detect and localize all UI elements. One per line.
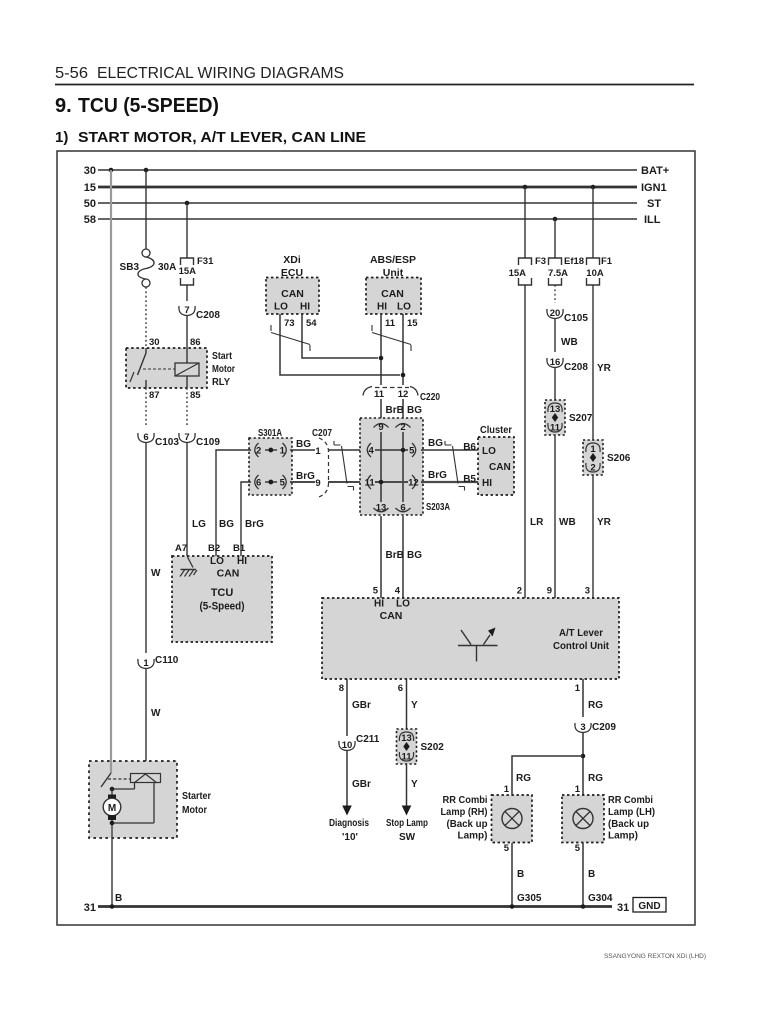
svg-text:15: 15 [84,182,96,194]
svg-text:SB3: SB3 [120,262,140,273]
svg-text:11: 11 [374,389,385,400]
svg-text:87: 87 [149,390,160,401]
svg-text:12: 12 [408,478,419,489]
svg-text:RG: RG [516,773,531,784]
wire starter to ground bus (B) [111,838,113,907]
svg-text:WB: WB [561,337,578,348]
junction starter ground [110,904,115,909]
svg-text:C211: C211 [356,734,380,745]
svg-text:F3: F3 [535,256,546,267]
wire C208 to S207 [554,368,556,400]
svg-text:LO: LO [482,446,496,457]
wire ILL to Ef18 [554,219,556,258]
wire S203A pin13 to A/T pin5 (BrB) [380,516,382,598]
svg-text:Control Unit: Control Unit [553,640,609,652]
svg-text:4: 4 [369,446,375,457]
connector C208 pin7 [179,306,195,316]
svg-text:Cluster: Cluster [480,424,512,436]
twisted-pair mark before S203A [334,441,354,491]
svg-text:58: 58 [84,214,96,226]
svg-text:CAN: CAN [281,288,304,300]
svg-text:BG: BG [428,438,443,449]
starter mechanical link (dashed) [108,778,130,780]
connector C110 pin1 [138,659,154,669]
wire C209 to lamp junction [582,733,584,795]
svg-text:HI: HI [300,302,310,313]
wire F3 to A/T pin2 (LR) [524,285,526,598]
svg-text:10A: 10A [586,268,604,279]
connector C103 pin6 [138,433,154,443]
wire bus 58 / ILL [98,218,637,220]
wire S203A pin12 to Cluster B5 (BrG) [421,481,478,483]
wire S206 to A/T pin3 (YR) [592,475,594,598]
splice S206 [583,440,603,475]
wire XDi pin73 (CAN LO) [280,314,400,375]
svg-text:SSANGYONG REXTON XDi (LHD): SSANGYONG REXTON XDi (LHD) [604,953,706,960]
wire relay87 to C103 (dotted) [145,388,147,427]
svg-text:LO: LO [210,556,224,567]
svg-text:1): 1) [55,129,68,146]
svg-text:Y: Y [411,700,418,711]
junction starter solenoid to motor [110,787,115,792]
svg-text:C220: C220 [420,392,440,403]
circuit breaker SB3 30A [142,249,150,257]
fuse F3 15A [519,258,532,285]
svg-text:LO: LO [397,302,411,313]
svg-text:6: 6 [400,503,405,514]
wire C109 to TCU A7 (LG) [186,443,188,556]
wire ground bus 31 [98,905,612,908]
svg-text:BG: BG [296,439,311,450]
svg-text:11: 11 [365,478,376,489]
svg-text:9.: 9. [55,95,72,117]
starter switch blade [110,761,112,773]
svg-text:1: 1 [280,446,286,457]
svg-text:TCU: TCU [211,587,234,599]
junction motor return [110,821,115,826]
svg-text:7: 7 [184,305,189,316]
twisted-pair mark XDi [271,325,310,351]
svg-text:Diagnosis: Diagnosis [329,818,369,829]
svg-text:6: 6 [398,683,403,694]
svg-text:C103: C103 [155,437,179,448]
wire C220-12 to S203A pin2 (BG) [402,399,404,418]
svg-text:B1: B1 [233,543,246,554]
wire F31 to C208 [186,285,188,301]
svg-text:RG: RG [588,700,603,711]
junction IGN1 F3 [523,185,528,190]
wire C220-11 to S203A pin9 (BrB) [380,399,382,418]
svg-text:ILL: ILL [644,214,661,226]
svg-text:A/T Lever: A/T Lever [559,627,603,639]
svg-text:RLY: RLY [212,376,230,388]
ground G304 [581,904,586,909]
connector C208 pin16 [547,358,563,368]
wire RG branch to RH lamp [512,756,583,795]
wire S203A pin5 to Cluster B6 (BG) [421,449,478,451]
svg-text:30: 30 [149,337,160,348]
svg-text:Motor: Motor [182,804,207,816]
svg-text:2: 2 [590,463,595,474]
svg-text:12: 12 [398,389,409,400]
svg-text:Start: Start [212,350,232,362]
svg-text:1: 1 [590,444,596,455]
wire bus50 to F31 [186,203,188,258]
ground G305 [510,904,515,909]
svg-text:B: B [517,869,524,880]
svg-text:9: 9 [315,478,320,489]
svg-text:B5: B5 [463,474,476,485]
arrow to Stop Lamp SW [402,806,412,816]
svg-text:Y: Y [411,779,418,790]
svg-text:4: 4 [395,586,401,597]
starter solenoid [131,774,161,783]
svg-text:Lamp): Lamp) [608,830,638,842]
svg-text:Starter: Starter [182,790,211,802]
svg-text:5: 5 [373,586,379,597]
svg-text:GBr: GBr [352,700,371,711]
svg-text:TCU (5-SPEED): TCU (5-SPEED) [78,95,219,117]
wire bus 50 / ST [98,202,637,204]
svg-text:C209: C209 [592,722,616,733]
svg-text:1: 1 [143,658,149,669]
svg-text:2: 2 [256,446,261,457]
ground GND box [633,898,666,913]
svg-text:XDi: XDi [283,254,301,266]
connector C109 pin7 [179,433,195,443]
svg-text:Motor: Motor [212,363,235,375]
svg-text:5: 5 [575,843,581,854]
wire C105 to C208 (WB) [554,319,556,352]
svg-text:6: 6 [143,432,148,443]
ground symbol TCU A7 [188,557,194,568]
svg-text:S202: S202 [421,742,445,753]
wire SB3 to relay pin30 (dotted) [145,287,147,348]
junction IGN1 F1 [591,185,596,190]
svg-text:HI: HI [374,599,384,610]
svg-text:CAN: CAN [489,462,511,473]
svg-text:W: W [151,708,161,719]
svg-text:CAN: CAN [381,288,404,300]
svg-text:CAN: CAN [380,610,403,622]
svg-text:RR Combi: RR Combi [443,794,488,806]
svg-text:7: 7 [184,432,189,443]
svg-text:B: B [115,893,122,904]
twisted-pair mark before Cluster [445,441,465,491]
splice S202 [397,729,417,764]
wire battery cable to starter switch [110,170,112,773]
svg-text:F1: F1 [601,256,613,267]
wire ABS pin15 down (BG/LO) [402,314,404,385]
connector C220 pins 11/12 [363,387,372,396]
wire C103 to C110 (W) [145,443,147,653]
svg-text:Lamp (RH): Lamp (RH) [441,806,488,818]
joint connector S301A [249,438,292,495]
A/T lever selector symbol [458,630,498,662]
svg-text:LO: LO [396,599,410,610]
wire S301A pin6 to TCU B1 (BrG) [241,482,251,556]
svg-text:1: 1 [504,784,510,795]
junction bus30 starter cable [109,168,114,173]
wire XDi pin54 (CAN HI) [302,314,378,358]
svg-text:5: 5 [409,446,415,457]
svg-text:LO: LO [274,302,288,313]
wire C207-1 to S203A pin4 (BG) [328,449,362,451]
wire S301A pin5 to C207 (BrG) [290,481,315,483]
svg-text:5: 5 [280,478,286,489]
svg-text:86: 86 [190,337,201,348]
svg-text:HI: HI [377,302,387,313]
svg-text:2: 2 [400,422,405,433]
svg-text:8: 8 [339,683,344,694]
svg-text:Lamp): Lamp) [458,830,488,842]
svg-text:10: 10 [342,740,353,751]
svg-text:W: W [151,568,161,579]
svg-text:1: 1 [315,446,321,457]
svg-text:1: 1 [575,784,581,795]
wire relay85 to C109 (dotted) [186,388,188,427]
svg-text:9: 9 [547,586,552,597]
svg-text:11: 11 [401,752,412,763]
svg-text:2: 2 [517,586,522,597]
svg-text:15A: 15A [509,268,527,279]
svg-text:YR: YR [597,517,612,528]
connector C209 pin3 [575,723,591,733]
svg-text:BAT+: BAT+ [641,165,669,177]
svg-text:3: 3 [585,586,590,597]
junction RG split [581,754,586,759]
junction bus50 F31 [185,201,190,206]
wire bus 15 / IGN1 [98,186,637,189]
svg-text:3: 3 [580,722,585,733]
fuse F31 15A [181,258,194,285]
wire S207 to A/T pin9 (WB) [554,435,556,598]
fuse Ef18 7.5A [549,258,562,285]
svg-text:1: 1 [575,683,581,694]
svg-text:SW: SW [399,832,416,843]
junction ILL Ef18 [553,217,558,222]
svg-text:31: 31 [617,902,629,914]
svg-text:B: B [588,869,595,880]
svg-text:30: 30 [84,165,96,177]
svg-text:RG: RG [588,773,603,784]
splice S207 [545,400,565,435]
wire A/T pin1 down (RG) [582,679,584,717]
svg-text:BrG: BrG [296,471,315,482]
svg-text:BrB: BrB [386,550,404,561]
svg-text:(Back up: (Back up [447,818,488,830]
svg-text:Ef18: Ef18 [564,256,584,267]
svg-text:CAN: CAN [217,568,240,580]
svg-text:ELECTRICAL WIRING DIAGRAMS: ELECTRICAL WIRING DIAGRAMS [97,65,344,82]
wire C208 to relay pin86 [186,316,188,348]
arrow to Diagnosis [342,806,352,816]
svg-text:YR: YR [597,363,612,374]
svg-text:20: 20 [550,308,561,319]
svg-text:GBr: GBr [352,779,371,790]
wire S203A pin6 to A/T pin4 (BG) [402,516,404,598]
svg-text:31: 31 [84,902,96,914]
junction bus30 SB3 [144,168,149,173]
svg-text:16: 16 [550,357,561,368]
wire bus 30 / BAT+ [98,169,637,171]
svg-text:HI: HI [482,478,492,489]
svg-text:START MOTOR, A/T LEVER, CAN LI: START MOTOR, A/T LEVER, CAN LINE [78,129,366,146]
svg-text:11: 11 [550,423,561,434]
svg-text:(5-Speed): (5-Speed) [200,601,245,613]
svg-text:6: 6 [256,478,261,489]
svg-text:7.5A: 7.5A [548,268,568,279]
svg-text:Stop Lamp: Stop Lamp [386,818,428,829]
svg-text:BG: BG [407,405,422,416]
svg-text:WB: WB [559,517,576,528]
wire A/T pin6 down (Y) [406,679,408,729]
svg-text:50: 50 [84,198,96,210]
wire S301A pin1 to C207 (BG) [290,449,315,451]
wire A/T pin8 down (GBr) [346,679,348,736]
svg-text:C207: C207 [312,428,332,439]
svg-text:B6: B6 [463,442,476,453]
motor M armature [111,789,113,795]
svg-text:ABS/ESP: ABS/ESP [370,254,416,266]
svg-text:(Back up: (Back up [608,818,649,830]
svg-text:G304: G304 [588,893,613,904]
wire Ef18 to C105 (dotted) [554,285,556,303]
svg-text:BrG: BrG [245,519,264,530]
svg-text:B2: B2 [208,543,220,554]
svg-text:C105: C105 [564,313,588,324]
svg-text:15: 15 [407,318,418,329]
svg-text:73: 73 [284,318,295,329]
svg-text:Lamp (LH): Lamp (LH) [608,806,655,818]
svg-text:IGN1: IGN1 [641,182,667,194]
svg-text:S203A: S203A [426,502,450,513]
twisted-pair mark ABS [372,325,411,351]
svg-text:13: 13 [376,503,387,514]
svg-text:LG: LG [192,519,206,530]
wire S202 to stop lamp arrow [406,764,408,807]
svg-text:85: 85 [190,390,201,401]
svg-text:BG: BG [407,550,422,561]
svg-text:HI: HI [237,556,247,567]
svg-text:BG: BG [219,519,234,530]
svg-text:M: M [108,803,116,814]
wire IGN1 to F1 [592,187,594,258]
svg-text:F31: F31 [197,256,214,267]
svg-text:9: 9 [378,422,383,433]
svg-text:5: 5 [504,843,510,854]
svg-text:S301A: S301A [258,428,282,439]
wire F1 to S206 (YR) [592,285,594,440]
svg-text:BrB: BrB [386,405,404,416]
svg-text:'10': '10' [342,832,358,843]
svg-text:54: 54 [306,318,317,329]
svg-text:S206: S206 [607,453,631,464]
junction CAN HI at ABS pin11 wire [379,356,384,361]
wire ABS pin11 down (BrB/HI) [380,314,382,385]
svg-text:15A: 15A [179,266,197,277]
junction CAN LO at ABS pin15 wire [401,373,406,378]
wire S301A pin2 to TCU B2 (BG) [216,450,251,556]
svg-text:C208: C208 [196,310,220,321]
wire LH lamp to G304 [582,843,584,907]
svg-text:RR Combi: RR Combi [608,794,653,806]
svg-text:C109: C109 [196,437,220,448]
svg-text:5-56: 5-56 [55,65,88,82]
svg-text:GND: GND [638,901,660,912]
svg-text:G305: G305 [517,893,542,904]
wire C110 to starter motor (W) [145,669,147,774]
svg-text:LR: LR [530,517,544,528]
wire C207-9 to S203A pin11 (BrG) [328,481,362,483]
fuse F1 10A [587,258,600,285]
svg-text:C110: C110 [155,655,179,666]
svg-text:30A: 30A [158,262,176,273]
wire RH lamp to G305 [511,843,513,907]
joint connector S203A [360,418,423,515]
wire IGN1 to F3 [524,187,526,258]
motor Starter Motor [89,761,177,838]
svg-text:C208: C208 [564,362,588,373]
connector C211 pin10 [339,741,355,751]
svg-text:ST: ST [647,198,661,210]
svg-text:11: 11 [385,318,396,329]
wire C211 to diagnosis arrow [346,751,348,807]
wire bus30 to SB3 [145,170,147,249]
svg-text:BrG: BrG [428,470,447,481]
relay Start Motor RLY [126,348,207,388]
connector C105 pin20 [547,309,563,319]
svg-text:A7: A7 [175,543,187,554]
svg-text:S207: S207 [569,413,593,424]
